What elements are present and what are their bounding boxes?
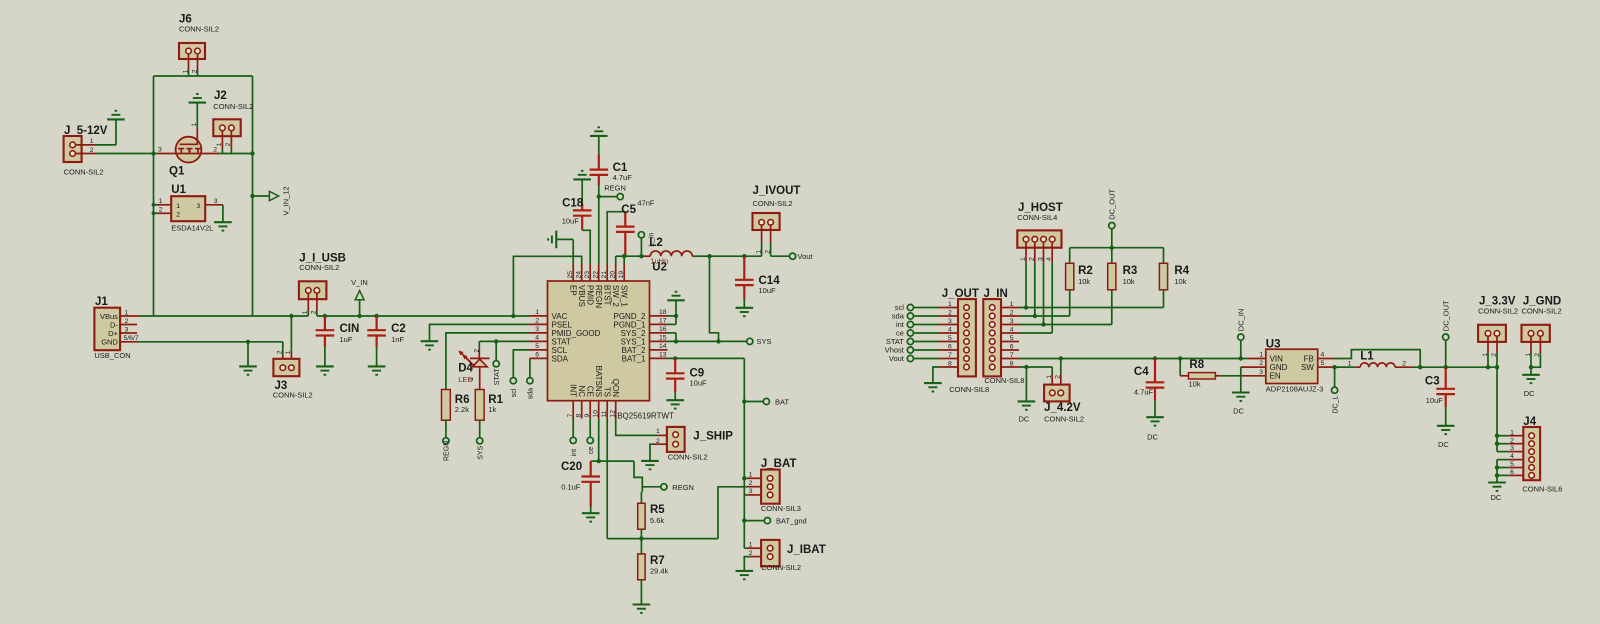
svg-text:6: 6 — [948, 343, 952, 350]
svg-text:J_4.2V: J_4.2V — [1044, 402, 1081, 414]
ground at U2 EP — [548, 231, 573, 264]
resistor R5 5.6k — [638, 487, 666, 539]
connector J_HOST CONN-SIL4 — [1017, 202, 1062, 262]
wire J6 to V_IN_12 rail left — [154, 76, 253, 316]
svg-text:2: 2 — [1534, 353, 1541, 357]
svg-text:2: 2 — [225, 143, 232, 147]
svg-text:3: 3 — [535, 326, 539, 333]
wire USB GND — [138, 340, 283, 344]
svg-text:R4: R4 — [1174, 265, 1189, 277]
svg-text:REGN: REGN — [672, 483, 694, 492]
svg-text:J2: J2 — [214, 90, 227, 102]
svg-text:17: 17 — [659, 318, 667, 325]
connector J3 CONN-SIL2 — [273, 314, 313, 400]
connector J_OUT CONN-SIL8 — [942, 288, 989, 394]
svg-text:2: 2 — [90, 147, 94, 154]
wire V_IN_12 vertical — [252, 76, 254, 316]
svg-text:ce: ce — [588, 447, 595, 455]
ground at J_SHIP pin2 — [641, 444, 659, 469]
wire PSEL to ground — [421, 324, 530, 349]
terminal DC_IN — [1237, 309, 1246, 359]
svg-text:4.7uF: 4.7uF — [613, 173, 633, 182]
wire BATSNS down — [597, 419, 601, 464]
svg-text:CONN-SIL2: CONN-SIL2 — [64, 168, 104, 177]
connector J_GND CONN-SIL2 — [1522, 296, 1562, 370]
wire FB to L1 output — [1333, 350, 1422, 370]
svg-text:CE: CE — [586, 386, 595, 397]
ground below R7 — [633, 605, 651, 613]
svg-text:7: 7 — [948, 352, 952, 359]
terminal int — [570, 419, 578, 457]
ground DC below J4 — [1488, 483, 1506, 503]
svg-text:10k: 10k — [1189, 380, 1201, 389]
connector J_5-12V CONN-SIL2 — [64, 125, 108, 177]
wire scl row to R4 — [1019, 305, 1164, 309]
svg-text:3: 3 — [749, 488, 753, 495]
svg-text:6: 6 — [1510, 469, 1514, 476]
svg-text:10k: 10k — [1174, 277, 1186, 286]
svg-text:CONN-SIL2: CONN-SIL2 — [213, 102, 253, 111]
capacitor C2 1nF — [367, 314, 406, 375]
svg-text:D4: D4 — [458, 363, 473, 375]
terminal REGN below R6 — [443, 420, 451, 461]
svg-text:3: 3 — [1510, 445, 1514, 452]
wire J_HOST pin3 down — [1043, 262, 1045, 324]
U2 right pins 18-13 — [613, 309, 667, 363]
svg-text:CONN-SIL2: CONN-SIL2 — [1478, 307, 1518, 316]
svg-text:DC: DC — [1491, 493, 1502, 502]
svg-text:1: 1 — [285, 350, 292, 354]
svg-text:4: 4 — [535, 335, 539, 342]
svg-text:10uF: 10uF — [690, 378, 708, 387]
terminal DC_L — [1332, 367, 1340, 413]
svg-text:13: 13 — [659, 352, 667, 359]
capacitor C1 4.7uF — [590, 127, 633, 196]
svg-text:R2: R2 — [1078, 265, 1093, 277]
capacitor C18 10uF — [562, 171, 592, 264]
resistor R6 2.2k — [442, 390, 470, 421]
terminal SYS below R1 — [477, 420, 485, 460]
svg-text:23: 23 — [584, 271, 591, 279]
svg-text:3: 3 — [1037, 257, 1044, 261]
svg-text:1: 1 — [216, 143, 223, 147]
svg-text:1: 1 — [1259, 352, 1263, 359]
wire J_HOST pin1 down — [1025, 262, 1027, 307]
svg-text:3: 3 — [197, 203, 201, 210]
svg-text:2: 2 — [764, 250, 771, 254]
svg-text:CONN-SIL8: CONN-SIL8 — [984, 376, 1024, 385]
svg-text:ESDA14V2L: ESDA14V2L — [171, 224, 213, 233]
svg-text:SDA: SDA — [552, 354, 569, 363]
svg-text:2: 2 — [277, 350, 284, 354]
J4 pin legs — [1497, 429, 1523, 476]
svg-text:19: 19 — [618, 271, 625, 279]
capacitor C5 47nF — [607, 199, 655, 264]
svg-text:1: 1 — [302, 310, 309, 314]
svg-text:BQ25619RTWT: BQ25619RTWT — [617, 412, 674, 421]
svg-text:J_IVOUT: J_IVOUT — [753, 185, 801, 197]
svg-text:6: 6 — [1010, 343, 1014, 350]
svg-text:VBUS: VBUS — [577, 285, 586, 307]
connector J_IBAT CONN-SIL2 — [747, 540, 826, 572]
svg-text:2.2k: 2.2k — [455, 405, 469, 414]
resistor R7 29.4k — [638, 539, 669, 605]
wire VBus rail — [140, 315, 530, 317]
connector J_SHIP CONN-SIL2 — [653, 427, 733, 462]
svg-text:DC_IN: DC_IN — [1237, 309, 1246, 332]
svg-text:2: 2 — [1259, 360, 1263, 367]
svg-text:2: 2 — [1491, 353, 1498, 357]
svg-text:29.4k: 29.4k — [650, 566, 669, 575]
wire J_HOST pin4 down — [1051, 262, 1053, 333]
wire PMID_GOOD to R6 — [446, 333, 530, 390]
svg-text:18: 18 — [659, 309, 667, 316]
wire resistor top rail — [1070, 247, 1164, 249]
svg-text:1: 1 — [535, 309, 539, 316]
svg-text:24: 24 — [576, 271, 583, 279]
svg-text:V_IN_12: V_IN_12 — [281, 186, 290, 215]
svg-text:4: 4 — [1510, 453, 1514, 460]
terminal DC_OUT right — [1441, 300, 1450, 367]
svg-text:4: 4 — [948, 326, 952, 333]
terminal scl — [510, 350, 529, 397]
connector J_4.2V CONN-SIL2 — [1044, 359, 1084, 424]
svg-text:scl: scl — [511, 388, 518, 397]
svg-text:J_BAT: J_BAT — [761, 458, 797, 470]
capacitor C20 0.1uF — [561, 461, 600, 522]
svg-text:J_SHIP: J_SHIP — [693, 430, 733, 442]
svg-text:2: 2 — [1029, 257, 1036, 261]
svg-text:CONN-SIL2: CONN-SIL2 — [761, 563, 801, 572]
svg-text:SYS: SYS — [757, 337, 772, 346]
connector J_IVOUT CONN-SIL2 — [753, 185, 801, 256]
connector J_I_USB CONN-SIL2 — [299, 253, 346, 317]
capacitor CIN 1uF — [316, 314, 360, 375]
svg-text:4: 4 — [1010, 326, 1014, 333]
svg-text:8: 8 — [1010, 360, 1014, 367]
svg-text:C4: C4 — [1134, 366, 1149, 378]
svg-text:C5: C5 — [621, 204, 636, 216]
svg-text:7: 7 — [567, 414, 574, 418]
svg-text:3: 3 — [158, 147, 162, 154]
svg-text:Vout: Vout — [889, 354, 905, 363]
svg-text:3: 3 — [1010, 318, 1014, 325]
svg-text:0.1uF: 0.1uF — [561, 483, 581, 492]
wire C20 node to REGN — [591, 461, 661, 487]
svg-text:2: 2 — [1010, 309, 1014, 316]
svg-text:20: 20 — [610, 271, 617, 279]
svg-text:2: 2 — [159, 206, 163, 213]
svg-text:SW_2: SW_2 — [611, 285, 620, 307]
svg-text:REGN: REGN — [444, 441, 451, 461]
wire sda row to R2 — [1019, 314, 1070, 318]
ground DC at J_GND — [1522, 367, 1540, 398]
svg-text:1: 1 — [749, 542, 753, 549]
svg-text:DC: DC — [1524, 389, 1535, 398]
svg-text:2: 2 — [213, 147, 217, 154]
ground at U2 PGND — [667, 292, 685, 325]
svg-text:5.6k: 5.6k — [650, 516, 664, 525]
svg-text:1: 1 — [182, 69, 189, 73]
svg-text:9: 9 — [584, 414, 591, 418]
ground at J_OUT pin8 — [924, 367, 942, 392]
svg-text:2: 2 — [1055, 375, 1062, 379]
J_IN pin legs — [1001, 301, 1019, 368]
svg-text:CONN-SIL2: CONN-SIL2 — [668, 453, 708, 462]
capacitor C9 10uF — [666, 358, 707, 408]
terminals scl sda int ce STAT Vhost Vout — [885, 303, 940, 363]
svg-text:SYS: SYS — [477, 445, 484, 459]
svg-text:C3: C3 — [1425, 375, 1440, 387]
svg-text:R7: R7 — [650, 555, 665, 567]
svg-text:1: 1 — [1525, 353, 1532, 357]
terminal V_IN_12 — [250, 186, 290, 215]
svg-text:DC_OUT: DC_OUT — [1441, 300, 1450, 331]
terminal BAT — [763, 397, 789, 406]
wire row8 to J_4.2V — [1019, 365, 1052, 369]
connector J4 CONN-SIL6 — [1522, 416, 1562, 493]
resistor R3 10k — [1108, 248, 1138, 325]
svg-text:8: 8 — [576, 414, 583, 418]
svg-text:8: 8 — [948, 360, 952, 367]
svg-text:47nF: 47nF — [637, 199, 655, 208]
svg-text:1: 1 — [1482, 353, 1489, 357]
terminal REGN right — [661, 483, 694, 492]
inductor L1 — [1348, 351, 1413, 368]
resistor R2 10k — [1066, 248, 1093, 316]
svg-text:BTST: BTST — [603, 285, 612, 306]
svg-text:BAT: BAT — [775, 397, 789, 406]
svg-text:USB_CON: USB_CON — [94, 351, 130, 360]
svg-text:10uF: 10uF — [1426, 396, 1444, 405]
svg-text:1: 1 — [1020, 257, 1027, 261]
svg-text:NC: NC — [577, 385, 586, 397]
svg-text:3: 3 — [1259, 369, 1263, 376]
wire SYS_2 SYS_1 — [668, 333, 747, 344]
terminal STAT — [493, 341, 501, 385]
svg-text:BATSNS: BATSNS — [594, 366, 603, 397]
wire SW rail to SYS — [710, 256, 721, 343]
svg-text:CONN-SIL2: CONN-SIL2 — [299, 263, 339, 272]
wire 3V3 to J4 pins 1-3 — [1495, 367, 1499, 451]
svg-text:10: 10 — [593, 410, 600, 418]
svg-text:2: 2 — [656, 438, 660, 445]
svg-text:CIN: CIN — [340, 323, 360, 335]
ground DC at U3 GND — [1232, 367, 1250, 416]
wire VBUS to VAC — [511, 256, 582, 318]
wire SW output to Vout — [694, 254, 789, 258]
svg-text:R8: R8 — [1189, 359, 1204, 371]
wire TS to divider and J_BAT pin2 — [607, 419, 746, 541]
svg-text:1uF: 1uF — [340, 335, 353, 344]
svg-text:DC_L: DC_L — [1332, 395, 1339, 413]
svg-text:C2: C2 — [391, 323, 406, 335]
svg-text:J_OUT: J_OUT — [942, 288, 979, 300]
svg-text:11: 11 — [601, 410, 608, 417]
wire QON to J_SHIP — [616, 419, 657, 436]
svg-text:1: 1 — [1010, 301, 1014, 308]
wire int row to R3 — [1019, 322, 1112, 326]
wire Vout row rail to U3 VIN — [1019, 356, 1248, 360]
svg-text:R5: R5 — [650, 504, 665, 516]
ground above Q1 — [189, 94, 207, 128]
svg-text:DC: DC — [1233, 407, 1244, 416]
svg-text:DC: DC — [1019, 415, 1030, 424]
IC U2 BQ25619RTWT — [548, 261, 675, 420]
svg-text:REGN: REGN — [594, 285, 603, 308]
svg-text:U1: U1 — [171, 184, 186, 196]
U2 top pins 25-19 — [567, 264, 629, 308]
svg-text:2: 2 — [473, 349, 480, 353]
svg-text:QON: QON — [611, 379, 620, 397]
svg-text:SW: SW — [1301, 363, 1314, 372]
svg-text:1nF: 1nF — [391, 335, 404, 344]
svg-text:1uHn: 1uHn — [650, 257, 668, 266]
svg-text:C20: C20 — [561, 461, 582, 473]
svg-text:CONN-SIL2: CONN-SIL2 — [179, 25, 219, 34]
svg-text:5: 5 — [1321, 360, 1325, 367]
svg-text:CONN-SIL2: CONN-SIL2 — [1044, 415, 1084, 424]
svg-text:CONN-SIL8: CONN-SIL8 — [949, 385, 989, 394]
svg-text:16: 16 — [659, 326, 667, 333]
svg-text:INT: INT — [569, 384, 578, 397]
svg-text:EN: EN — [1270, 371, 1281, 380]
svg-text:L1: L1 — [1360, 351, 1374, 363]
terminal ce — [587, 419, 595, 455]
svg-text:1: 1 — [755, 250, 762, 254]
svg-text:21: 21 — [601, 271, 608, 279]
svg-text:1: 1 — [656, 428, 660, 435]
wire SW node — [616, 254, 644, 264]
wire ce row to J_HOST pin4 — [1019, 332, 1052, 334]
svg-text:1: 1 — [749, 472, 753, 479]
terminal sda — [527, 358, 535, 399]
svg-text:EP: EP — [569, 285, 578, 296]
svg-text:5: 5 — [535, 343, 539, 350]
terminal Vout — [790, 252, 814, 261]
svg-text:L2: L2 — [649, 237, 662, 249]
terminal BAT_gnd — [744, 516, 806, 525]
svg-text:V_IN: V_IN — [351, 278, 368, 287]
ground at USB GND — [239, 342, 257, 375]
svg-text:CONN-SIL2: CONN-SIL2 — [753, 199, 793, 208]
connector J6 CONN-SIL2 — [179, 14, 219, 77]
resistor R4 10k — [1159, 248, 1189, 308]
svg-text:25: 25 — [567, 271, 574, 279]
svg-text:STAT: STAT — [494, 368, 501, 386]
resistor R8 10k — [1180, 359, 1241, 389]
connector J_BAT CONN-SIL3 — [747, 458, 801, 513]
wire STAT — [479, 339, 529, 343]
svg-text:CONN-SIL4: CONN-SIL4 — [1017, 213, 1057, 222]
svg-text:BAT_gnd: BAT_gnd — [776, 516, 807, 525]
svg-text:LED: LED — [458, 375, 473, 384]
svg-text:12: 12 — [610, 410, 617, 418]
svg-text:BAT_1: BAT_1 — [622, 354, 646, 363]
capacitor C4 4.7uF — [1134, 359, 1164, 442]
svg-text:10k: 10k — [1078, 277, 1090, 286]
svg-text:SW_1: SW_1 — [620, 285, 629, 307]
wire J_HOST pin2 down — [1034, 262, 1036, 316]
svg-text:1k: 1k — [488, 405, 496, 414]
svg-text:1: 1 — [176, 203, 180, 210]
svg-text:int: int — [571, 449, 578, 456]
svg-text:1: 1 — [191, 123, 198, 127]
svg-text:C18: C18 — [562, 197, 584, 209]
wire BAT vertical — [742, 402, 747, 549]
inductor L2 1uHn — [643, 237, 694, 266]
svg-text:4.7uF: 4.7uF — [1134, 387, 1154, 396]
svg-text:CONN-SIL2: CONN-SIL2 — [273, 391, 313, 400]
LED D4 — [458, 341, 489, 389]
svg-text:CONN-SIL3: CONN-SIL3 — [761, 504, 801, 513]
ground at J_IBAT pin2 — [736, 557, 754, 580]
svg-text:10k: 10k — [1123, 277, 1135, 286]
svg-text:4: 4 — [1046, 257, 1053, 261]
svg-text:DC_OUT: DC_OUT — [1108, 188, 1117, 219]
svg-text:2: 2 — [749, 480, 753, 487]
svg-text:1: 1 — [948, 301, 952, 308]
svg-text:5: 5 — [948, 335, 952, 342]
svg-text:1: 1 — [1510, 429, 1514, 436]
IC U3 ADP2108AUJZ-3 — [1241, 338, 1333, 393]
wire 3V3 rail — [1413, 365, 1500, 369]
svg-text:2: 2 — [535, 318, 539, 325]
svg-text:5/6/7: 5/6/7 — [124, 335, 139, 342]
svg-text:10uF: 10uF — [562, 217, 580, 226]
connector J_3.3V CONN-SIL2 — [1478, 296, 1518, 368]
wire J4 pins 4-6 to ground — [1495, 460, 1499, 483]
svg-text:Q1: Q1 — [169, 166, 185, 178]
wire J_5-12V pin2 to node — [96, 153, 154, 155]
svg-text:J_IBAT: J_IBAT — [787, 544, 826, 556]
connector J_IN CONN-SIL8 — [983, 288, 1024, 385]
svg-text:2: 2 — [176, 212, 180, 219]
svg-text:J_IN: J_IN — [984, 288, 1008, 300]
svg-text:3: 3 — [948, 318, 952, 325]
capacitor C14 10uF — [735, 256, 780, 316]
svg-text:J1: J1 — [95, 296, 108, 308]
svg-text:CONN-SIL6: CONN-SIL6 — [1522, 485, 1562, 494]
svg-text:R3: R3 — [1123, 265, 1138, 277]
svg-text:1: 1 — [159, 198, 163, 205]
terminal V_IN — [351, 278, 368, 318]
U2 bottom pins 7-12 — [567, 366, 620, 419]
svg-text:5: 5 — [1510, 461, 1514, 468]
svg-text:15: 15 — [659, 335, 667, 342]
terminal DC_OUT — [1108, 188, 1117, 249]
svg-text:1: 1 — [90, 138, 94, 145]
connector J2 CONN-SIL2 — [213, 90, 253, 154]
U2 left pins 1-6 — [530, 309, 601, 363]
svg-text:1: 1 — [1348, 360, 1352, 367]
svg-text:2: 2 — [1402, 360, 1406, 367]
svg-text:14: 14 — [659, 343, 667, 350]
svg-text:CONN-SIL2: CONN-SIL2 — [1522, 307, 1562, 316]
svg-text:GND: GND — [101, 337, 118, 346]
ground at J_5-12V pin1 — [96, 111, 125, 145]
svg-text:22: 22 — [593, 271, 600, 279]
ground at U1 pin3 — [214, 205, 232, 231]
svg-text:2: 2 — [125, 318, 129, 325]
svg-text:2: 2 — [311, 310, 318, 314]
svg-text:2: 2 — [191, 69, 198, 73]
svg-text:6: 6 — [535, 352, 539, 359]
svg-text:ADP2108AUJZ-3: ADP2108AUJZ-3 — [1266, 385, 1324, 394]
svg-text:2: 2 — [1510, 437, 1514, 444]
terminal REGN — [597, 183, 626, 264]
svg-text:DC: DC — [1438, 440, 1449, 449]
